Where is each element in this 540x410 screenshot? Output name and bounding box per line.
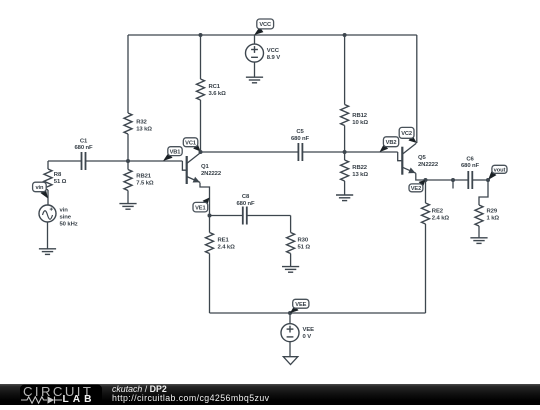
svg-text:VB2: VB2 — [386, 140, 397, 146]
node VE2 flag — [409, 180, 426, 192]
source vin sine 50kHz — [39, 205, 56, 222]
svg-text:1 kΩ: 1 kΩ — [487, 216, 500, 222]
svg-text:680 nF: 680 nF — [74, 145, 93, 151]
svg-text:2N2222: 2N2222 — [418, 162, 439, 168]
banner background — [0, 384, 540, 405]
capacitor C6 — [426, 171, 489, 189]
svg-text:51 Ω: 51 Ω — [298, 245, 311, 251]
svg-text:RC1: RC1 — [209, 84, 221, 90]
svg-text:Q1: Q1 — [201, 164, 209, 170]
ground below RB21 — [119, 204, 136, 210]
wire bottom VEE rail — [210, 312, 426, 314]
logo diode triangle — [48, 397, 55, 404]
wire Q5 base jog — [398, 152, 403, 161]
resistor RE2 — [422, 180, 430, 313]
voltage source VEE wire — [289, 313, 291, 324]
node junction Q5 emitter — [424, 178, 428, 182]
voltage source VCC label — [267, 48, 280, 61]
node vout flag — [488, 165, 507, 180]
resistor RB21 label — [136, 174, 154, 187]
resistor RE2 label — [432, 209, 450, 222]
logo text LAB — [63, 395, 96, 405]
svg-text:VC2: VC2 — [401, 131, 412, 137]
svg-text:2N2222: 2N2222 — [201, 171, 222, 177]
node junction RB12/RB22 — [343, 150, 347, 154]
node junction R32/RB21/base wire — [126, 159, 130, 163]
resistor RB12 label — [352, 113, 368, 126]
resistor R8 — [44, 161, 52, 205]
svg-text:C5: C5 — [296, 129, 304, 135]
resistor R30 — [287, 216, 295, 267]
node junction Q1 collector — [199, 150, 203, 154]
node VB1 flag — [163, 147, 182, 161]
svg-text:vin: vin — [60, 208, 69, 214]
svg-text:680 nF: 680 nF — [236, 201, 255, 207]
svg-text:51 Ω: 51 Ω — [54, 179, 67, 185]
svg-text:Q5: Q5 — [418, 155, 426, 161]
wire Q5 collector riser — [416, 35, 418, 143]
node VCC flag — [254, 19, 273, 35]
wire top VCC rail — [128, 34, 417, 36]
banner author line — [112, 385, 167, 394]
svg-text:13 kΩ: 13 kΩ — [352, 172, 368, 178]
voltage source VCC 8.9V — [246, 44, 264, 62]
resistor R32 — [124, 35, 132, 161]
svg-text:10 kΩ: 10 kΩ — [352, 120, 368, 126]
capacitor C6 label — [461, 157, 480, 170]
svg-text:RB22: RB22 — [352, 165, 367, 171]
logo text CIRCUIT — [23, 385, 93, 398]
resistor RC1 — [197, 35, 205, 152]
svg-text:VEE: VEE — [295, 302, 306, 308]
capacitor C5 label — [291, 129, 310, 142]
ground below R29 — [470, 238, 487, 244]
svg-text:R29: R29 — [487, 209, 498, 215]
resistor RC1 label — [209, 84, 227, 97]
svg-text:50 kHz: 50 kHz — [60, 222, 78, 228]
svg-text:13 kΩ: 13 kΩ — [136, 127, 152, 133]
resistor RE1 — [206, 216, 214, 314]
resistor R29 label — [487, 209, 500, 222]
resistor RB12 — [341, 35, 349, 152]
capacitor C8 — [210, 207, 291, 225]
node VC2 flag — [399, 127, 417, 143]
node VE1 flag — [193, 198, 210, 212]
transistor Q5 2N2222 — [402, 143, 416, 175]
transistor Q5 label — [418, 155, 439, 168]
resistor R29 — [475, 205, 483, 238]
voltage source VCC wire — [254, 35, 256, 44]
svg-text:VC1: VC1 — [185, 140, 196, 146]
svg-text:VEE: VEE — [303, 327, 315, 333]
svg-text:sine: sine — [60, 215, 72, 221]
VEE down arrow — [283, 342, 298, 365]
resistor R32 label — [136, 120, 152, 133]
capacitor C1 — [48, 152, 128, 170]
wire Q5 emitter jog — [416, 173, 426, 180]
ground below RB22 — [336, 195, 353, 201]
resistor R30 label — [298, 238, 311, 251]
node vin flag — [33, 182, 48, 198]
svg-text:3.6 kΩ: 3.6 kΩ — [209, 91, 227, 97]
ground below R30 — [282, 267, 299, 273]
svg-text:7.5 kΩ: 7.5 kΩ — [136, 181, 154, 187]
resistor RB22 label — [352, 165, 368, 178]
svg-text:VE2: VE2 — [411, 186, 421, 192]
transistor Q1 label — [201, 164, 222, 177]
resistor RB22 — [341, 152, 349, 195]
svg-text:RB12: RB12 — [352, 113, 367, 119]
node junction RC1/top-rail — [199, 33, 203, 37]
svg-text:VB1: VB1 — [170, 149, 181, 155]
svg-text:RE2: RE2 — [432, 209, 444, 215]
resistor RB21 — [124, 161, 132, 203]
node VEE flag — [290, 299, 309, 313]
svg-text:680 nF: 680 nF — [461, 163, 480, 169]
svg-text:C6: C6 — [466, 157, 474, 163]
ground below vin — [39, 222, 56, 254]
resistor RE1 label — [218, 238, 236, 251]
svg-text:0 V: 0 V — [303, 334, 312, 340]
svg-text:VCC: VCC — [259, 22, 271, 28]
source vin label — [60, 208, 78, 228]
svg-text:C8: C8 — [242, 194, 250, 200]
svg-text:vin: vin — [35, 185, 44, 191]
capacitor C1 label — [74, 139, 93, 152]
voltage source VEE label — [303, 327, 315, 340]
svg-text:R30: R30 — [298, 238, 309, 244]
wire Q1 base jog — [182, 161, 186, 170]
node junction RB12/top-rail — [343, 33, 347, 37]
node junction VEE tap — [288, 311, 292, 315]
svg-text:680 nF: 680 nF — [291, 136, 310, 142]
svg-text:R8: R8 — [54, 172, 62, 178]
logo black box — [20, 385, 102, 405]
capacitor C8 label — [236, 194, 255, 207]
wire C1 to Q1 base — [128, 160, 182, 162]
svg-text:2.4 kΩ: 2.4 kΩ — [218, 245, 236, 251]
svg-text:8.9 V: 8.9 V — [267, 55, 280, 61]
svg-text:2.4 kΩ: 2.4 kΩ — [432, 216, 450, 222]
svg-text:R32: R32 — [136, 120, 147, 126]
svg-text:C1: C1 — [80, 139, 88, 145]
node junction vout — [486, 178, 490, 182]
logo symbol wire-resistor-diode — [21, 397, 62, 404]
wire Q1 emitter jog — [200, 183, 210, 216]
svg-text:RE1: RE1 — [218, 238, 230, 244]
resistor R8 label — [54, 172, 67, 185]
wire vout to R29 — [479, 180, 488, 205]
capacitor C5 — [201, 143, 398, 161]
wire stub junction — [451, 178, 455, 189]
ground below VCC — [246, 62, 263, 83]
voltage source VEE 0V — [281, 324, 299, 342]
svg-text:RB21: RB21 — [136, 174, 151, 180]
node VC1 flag — [183, 138, 200, 152]
svg-text:VCC: VCC — [267, 48, 280, 54]
banner url line — [112, 394, 269, 403]
node VB2 flag — [380, 137, 399, 152]
node junction Q1 emitter — [208, 214, 212, 218]
svg-text:vout: vout — [494, 168, 506, 174]
transistor Q1 2N2222 — [187, 153, 201, 185]
svg-text:VE1: VE1 — [195, 205, 205, 211]
